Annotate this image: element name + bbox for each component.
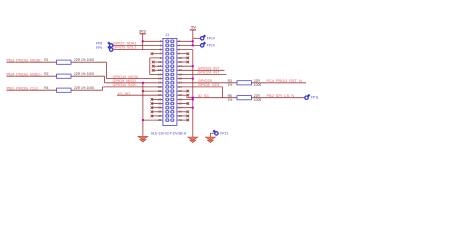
svg-text:PB3_PROG_MOSI: PB3_PROG_MOSI (7, 57, 41, 62)
svg-text:HLE-120-02-F-DV-BE-A: HLE-120-02-F-DV-BE-A (151, 132, 187, 136)
svg-text:GPIO11_SCK: GPIO11_SCK (113, 83, 137, 87)
svg-text:1%: 1% (228, 83, 233, 87)
svg-text:ID_SD: ID_SD (118, 91, 130, 96)
svg-text:FP10: FP10 (207, 44, 215, 48)
svg-text:5V: 5V (191, 25, 196, 30)
svg-text:R1: R1 (44, 58, 48, 62)
svg-text:R2: R2 (44, 72, 48, 76)
svg-text:22R 1% 1005: 22R 1% 1005 (74, 58, 94, 62)
svg-text:PB4_PROG_MISO: PB4_PROG_MISO (7, 71, 41, 76)
svg-text:1005: 1005 (254, 98, 262, 102)
svg-text:GPIO24_INT: GPIO24_INT (198, 71, 221, 75)
svg-text:FP9: FP9 (96, 46, 102, 50)
svg-text:FP11: FP11 (311, 96, 319, 100)
svg-text:1005: 1005 (254, 83, 262, 87)
svg-text:GPIO8_CE0: GPIO8_CE0 (198, 83, 219, 87)
svg-text:J1: J1 (166, 33, 170, 37)
svg-text:PB1_PROG_CLK: PB1_PROG_CLK (7, 85, 39, 90)
svg-text:GPIO3_SCL1: GPIO3_SCL1 (113, 46, 136, 50)
svg-text:FP14: FP14 (207, 36, 215, 40)
svg-text:PB2_SPI_CS_N: PB2_SPI_CS_N (267, 94, 295, 98)
svg-text:22R 1% 1005: 22R 1% 1005 (74, 72, 94, 76)
svg-text:3V3: 3V3 (139, 29, 146, 34)
svg-text:R4: R4 (44, 86, 48, 90)
svg-text:22R 1% 1005: 22R 1% 1005 (74, 86, 94, 90)
svg-text:ID_SC: ID_SC (198, 94, 209, 98)
svg-text:FP13: FP13 (220, 132, 228, 136)
svg-text:1%: 1% (228, 98, 233, 102)
svg-text:PC4_PROG_RST_N: PC4_PROG_RST_N (267, 79, 302, 83)
